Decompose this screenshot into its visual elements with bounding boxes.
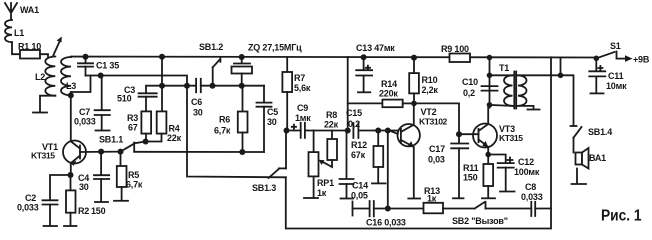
capacitor C10 0,2	[462, 77, 498, 98]
capacitor C4 30	[78, 152, 109, 202]
wire R1 to L2	[40, 54, 48, 56]
quartz ZQ 27,15MHz	[232, 43, 303, 89]
node VT3 base / C17	[456, 131, 462, 137]
capacitor C3 510	[117, 85, 162, 111]
node rail A / C7	[98, 73, 104, 79]
resistor R13 1k	[424, 186, 475, 213]
svg-text:R3: R3	[127, 113, 138, 123]
node L3 top area: C1 tap	[83, 54, 89, 60]
svg-text:ВА1: ВА1	[589, 153, 606, 163]
VT1 base line	[80, 151, 121, 153]
capacitor C9 1mk	[287, 103, 348, 138]
resistor R9 100	[441, 44, 470, 62]
svg-text:1к: 1к	[317, 188, 327, 198]
resistor R14 220k	[348, 79, 414, 107]
resistor R6 6,7k	[214, 86, 248, 155]
capacitor C11 10mk	[589, 58, 627, 93]
capacitor C16 0,033	[366, 201, 424, 228]
node R3/R4	[143, 139, 149, 145]
wire L1 to R1	[12, 42, 20, 54]
svg-text:30: 30	[193, 108, 203, 118]
resistor R8 22k with wiper arrow	[319, 110, 339, 167]
top rail	[71, 57, 596, 58]
wire R7 bottom to SB1.3 contact	[285, 131, 287, 169]
node A audio wire crosses box edge	[345, 128, 351, 134]
antenna WA1	[5, 3, 39, 20]
wire rail-B junction down to SB1.3 line	[187, 86, 286, 178]
transistor VT3 KT315	[473, 108, 523, 155]
svg-text:22к: 22к	[167, 133, 182, 143]
svg-text:R8: R8	[326, 110, 337, 120]
svg-text:SB2 "Вызов": SB2 "Вызов"	[452, 216, 508, 226]
svg-text:C10: C10	[462, 77, 478, 87]
node L3 bottom	[68, 92, 74, 98]
potentiometer RP1 1k	[304, 131, 334, 199]
capacitor C2 0,033	[17, 193, 58, 226]
svg-text:C11: C11	[608, 71, 624, 81]
svg-text:R5: R5	[128, 170, 139, 180]
switch SB2 Vyzov	[452, 202, 531, 226]
capacitor C6 30	[191, 79, 264, 118]
capacitor C12 100mk	[488, 155, 540, 192]
speaker BA1	[576, 148, 607, 169]
bottom call line: left tick	[352, 202, 354, 216]
resistor R7 5,6k	[282, 57, 311, 130]
svg-text:220к: 220к	[379, 89, 398, 99]
svg-text:C2: C2	[25, 193, 36, 203]
svg-text:0,03: 0,03	[428, 155, 445, 165]
wire R4 bottom to node	[146, 134, 162, 142]
rail B nodes	[184, 83, 190, 89]
svg-text:KT315: KT315	[499, 133, 523, 143]
svg-text:C9: C9	[297, 103, 308, 113]
svg-text:S1: S1	[610, 41, 621, 51]
svg-text:SB1.2: SB1.2	[199, 42, 223, 52]
svg-text:C1 35: C1 35	[96, 61, 119, 71]
svg-text:С16 0,033: С16 0,033	[366, 218, 406, 228]
wire L2 to ground	[40, 96, 55, 112]
switch SB1.2	[199, 42, 223, 89]
resistor R2 150	[64, 175, 106, 226]
wire y=152 SB1.1 to C5	[134, 151, 264, 153]
svg-text:ZQ 27,15МГц: ZQ 27,15МГц	[248, 43, 302, 53]
svg-text:0,033: 0,033	[17, 203, 39, 213]
transistor VT2 KT3102	[390, 103, 448, 198]
box left edge	[347, 57, 349, 131]
switch SB1.1	[99, 135, 146, 152]
tuning arrow	[53, 40, 61, 57]
svg-text:L3: L3	[66, 81, 76, 91]
rail A from C1 bottom	[86, 76, 188, 86]
node C11/S1	[594, 56, 600, 62]
inductor L3	[61, 57, 76, 95]
svg-text:C8: C8	[525, 182, 536, 192]
svg-text:2,2к: 2,2к	[422, 85, 439, 95]
svg-text:R11: R11	[463, 163, 479, 173]
switch S1	[596, 41, 621, 58]
switch SB1.4	[571, 126, 613, 138]
svg-text:6,7к: 6,7к	[126, 180, 143, 190]
svg-text:30: 30	[79, 182, 89, 192]
svg-text:C15: C15	[346, 108, 362, 118]
wire VT1 emitter down	[70, 163, 72, 175]
svg-text:KT315: KT315	[31, 151, 55, 161]
svg-text:0,05: 0,05	[351, 191, 368, 201]
wire R3 to SB1.1 node	[145, 134, 147, 142]
svg-text:22к: 22к	[324, 120, 339, 130]
svg-text:L2: L2	[35, 72, 45, 82]
resistor R10 2,2k	[409, 55, 438, 104]
svg-text:5,6к: 5,6к	[294, 83, 311, 93]
capacitor C13 47mk	[356, 43, 395, 92]
transformer T1	[490, 63, 561, 110]
svg-text:R1 10: R1 10	[18, 42, 41, 52]
resistor R3 67	[127, 111, 151, 133]
svg-text:+9В: +9В	[633, 55, 650, 65]
ground L2	[33, 112, 47, 114]
node R5 tap / SB1.1 pivot	[118, 149, 124, 155]
switch SB1.3	[252, 168, 286, 193]
box bottom and right edge	[286, 57, 551, 228]
svg-text:R9 100: R9 100	[441, 44, 469, 54]
+9V arrow	[617, 55, 650, 65]
capacitor C15 0,2	[346, 108, 398, 138]
inductor L2	[35, 57, 55, 96]
wire L3 node to VT1 collector	[70, 95, 72, 141]
wire VT3 base	[459, 133, 479, 135]
svg-text:C12: C12	[518, 157, 534, 167]
svg-text:WA1: WA1	[20, 5, 39, 15]
inductor L1	[5, 20, 24, 42]
wire node to VT3 base	[414, 103, 459, 134]
svg-text:0,2: 0,2	[348, 119, 360, 129]
svg-text:SB1.4: SB1.4	[588, 127, 612, 137]
resistor R1 10	[18, 42, 41, 59]
node R7 bottom	[284, 128, 290, 134]
svg-text:67к: 67к	[351, 150, 366, 160]
capacitor C5 30	[257, 86, 279, 152]
wire BA1 to ground	[576, 169, 578, 184]
svg-text:R14: R14	[381, 79, 397, 89]
svg-text:Рис. 1: Рис. 1	[601, 207, 642, 225]
wire to speaker chain	[561, 75, 574, 125]
riser to C16 line	[385, 128, 391, 134]
svg-text:SB1.1: SB1.1	[99, 135, 123, 145]
svg-text:R2: R2	[78, 206, 89, 216]
wire emitter to C2	[50, 175, 71, 200]
svg-text:VT2: VT2	[421, 107, 437, 117]
wire SB1.4 to speaker	[573, 138, 575, 153]
node VT1 emitter	[68, 172, 74, 178]
svg-text:150: 150	[91, 206, 106, 216]
svg-text:0,2: 0,2	[463, 88, 475, 98]
resistor R12 67k	[351, 128, 386, 184]
svg-text:R4: R4	[169, 124, 180, 134]
capacitor C1 35	[78, 57, 119, 76]
svg-text:RP1: RP1	[317, 178, 334, 188]
node T1 top rail	[487, 55, 493, 61]
svg-text:C5: C5	[267, 107, 278, 117]
svg-text:6,7к: 6,7к	[214, 126, 231, 136]
capacitor C14 0,05	[340, 131, 369, 201]
wire rail to T1/C10	[489, 58, 491, 108]
svg-text:67: 67	[128, 123, 138, 133]
resistor R11 150	[463, 155, 495, 199]
ground VT2 emitter	[408, 198, 420, 200]
svg-text:C13 47мк: C13 47мк	[356, 43, 395, 53]
node VT3 emitter	[485, 152, 491, 158]
svg-text:C7: C7	[79, 107, 90, 117]
svg-text:SB1.3: SB1.3	[252, 183, 276, 193]
capacitor C17 0,03	[428, 134, 468, 198]
svg-text:C14: C14	[352, 181, 368, 191]
svg-text:1к: 1к	[427, 194, 437, 204]
svg-text:10мк: 10мк	[606, 81, 627, 91]
svg-text:R6: R6	[219, 115, 230, 125]
node T1 secondary / speaker	[558, 73, 564, 79]
svg-text:C6: C6	[191, 97, 202, 107]
node R14/R10/VT2 collector	[411, 101, 417, 107]
svg-text:510: 510	[117, 94, 132, 104]
svg-text:KT3102: KT3102	[419, 117, 448, 127]
svg-text:L1: L1	[14, 28, 24, 38]
node C4 tap	[98, 149, 104, 155]
svg-text:C17: C17	[429, 144, 445, 154]
resistor R5 6,7k	[114, 152, 143, 201]
svg-text:R7: R7	[294, 73, 305, 83]
vertical x=162 top rail to R4	[161, 57, 163, 112]
svg-text:0,033: 0,033	[74, 117, 96, 127]
svg-text:150: 150	[463, 173, 478, 183]
wire L3 bottom to rail A	[71, 76, 91, 96]
resistor R4 22k	[157, 111, 182, 143]
svg-text:30: 30	[267, 117, 277, 127]
capacitor C8 0,033	[521, 182, 551, 216]
svg-text:0,033: 0,033	[521, 192, 543, 202]
capacitor C7 0,033	[74, 76, 110, 131]
svg-text:100мк: 100мк	[514, 167, 540, 177]
svg-text:T1: T1	[499, 63, 509, 73]
svg-text:1мк: 1мк	[295, 113, 311, 123]
svg-text:R10: R10	[422, 75, 438, 85]
svg-text:R12: R12	[351, 140, 367, 150]
transistor VT1 KT315	[31, 141, 86, 167]
